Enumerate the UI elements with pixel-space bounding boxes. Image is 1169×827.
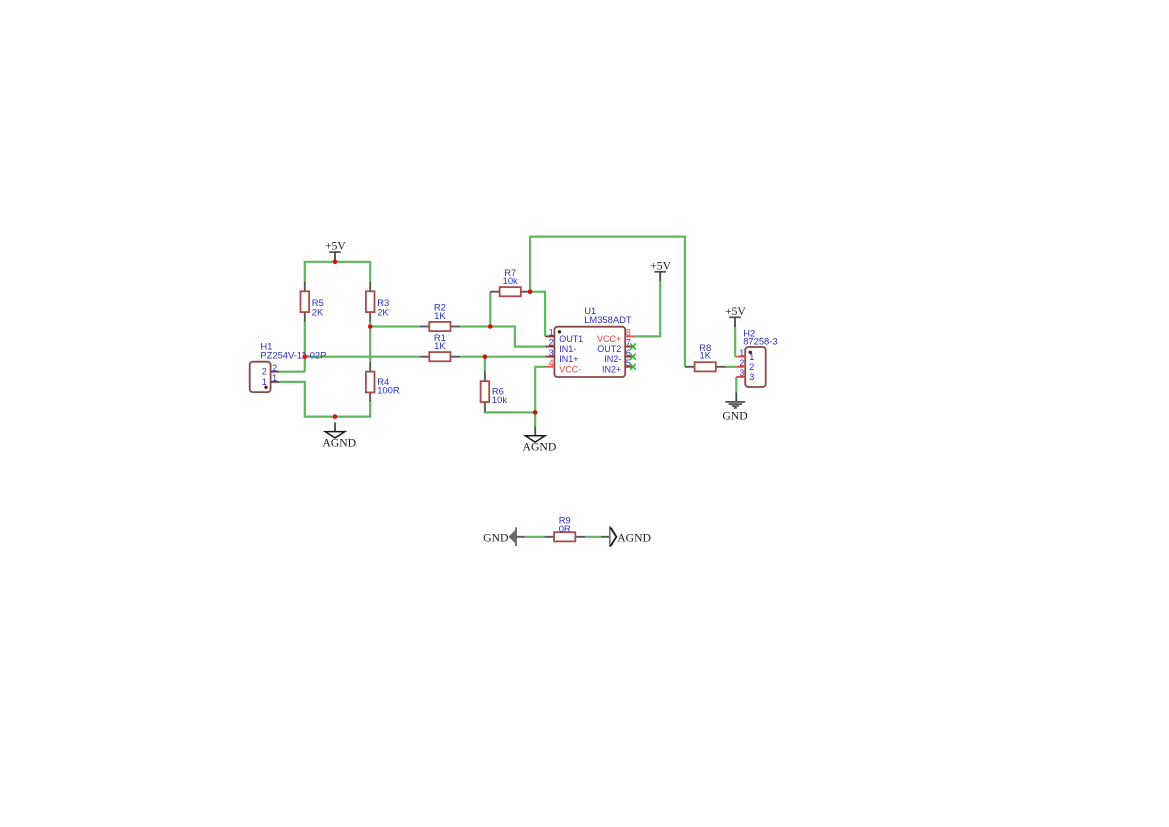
wire R1 right to U1 pin3 (460, 356, 545, 358)
resistor R9 0R (545, 515, 585, 542)
svg-text:2K: 2K (377, 307, 389, 318)
power +5V (U1 VCC+) (650, 259, 671, 281)
svg-text:IN2+: IN2+ (602, 364, 621, 374)
node R7/top wire (528, 289, 533, 294)
wire node right toward U1 pin1 (529, 291, 545, 293)
wire U1 pin8 to +5V horizontal (634, 335, 660, 337)
svg-text:2: 2 (549, 338, 554, 348)
svg-text:1K: 1K (434, 310, 446, 321)
svg-text:+5V: +5V (650, 259, 671, 272)
wire R2 right to node (460, 325, 490, 327)
wire H2 pin3 to GND (735, 377, 737, 393)
resistor R4 100R (366, 362, 400, 402)
svg-text:1: 1 (739, 348, 744, 358)
svg-text:1: 1 (549, 328, 554, 338)
wire +5V U1 vertical (659, 282, 661, 338)
wire +5V rail top-left horizontal (305, 261, 370, 263)
connector H1 PZ254V-11-02P body (250, 341, 327, 393)
svg-text:1: 1 (272, 373, 277, 383)
wire U1 pin4 horizontal (535, 366, 545, 368)
resistor R2 1K (420, 302, 460, 332)
node R1/R6/IN1+ (483, 354, 488, 359)
wire +5V rail right drop to R3 (369, 261, 371, 282)
svg-text:2: 2 (739, 358, 744, 368)
wire H1 pin2 horizontal (279, 371, 305, 373)
wire H1 pin1 horizontal (279, 381, 305, 383)
wire H1 pin1 drop (304, 381, 306, 417)
node R3/R2/R4 (368, 324, 373, 329)
wire node up to R7 left pin (489, 292, 491, 328)
wire VCC- drop (534, 366, 536, 413)
svg-text:0R: 0R (559, 523, 571, 534)
svg-text:3: 3 (549, 348, 554, 358)
ground GND (H2 pin3) earth symbol (722, 392, 747, 422)
svg-text:GND: GND (722, 410, 747, 423)
U1 pin 2 IN1- (545, 338, 576, 354)
svg-text:+5V: +5V (725, 305, 746, 318)
H2 pin 1 (736, 348, 754, 362)
node VCC-/R6/AGND (533, 410, 538, 415)
resistor R6 10k (481, 371, 508, 411)
wire corner down to pin1 row (544, 291, 546, 337)
svg-text:2: 2 (749, 362, 754, 372)
svg-text:3: 3 (739, 368, 744, 378)
svg-text:AGND: AGND (617, 531, 651, 544)
node H1 net / R1 (303, 354, 308, 359)
wire corner down to pin2 row (514, 326, 516, 347)
wire R5 bottom to H1 pin2 vertical (304, 322, 306, 372)
power +5V (H2 pin1) (725, 305, 746, 327)
wire top long horizontal (529, 236, 685, 238)
wire node to R1 left horizontal (305, 356, 420, 358)
resistor R8 1K (685, 342, 725, 372)
svg-text:1K: 1K (434, 340, 446, 351)
wire R6 bottom nub (484, 411, 486, 413)
wire R7 right node up (529, 237, 531, 293)
net port GND (bottom row) (483, 527, 524, 546)
svg-text:IN1-: IN1- (559, 344, 576, 354)
wire R6 bottom to node horizontal (485, 411, 536, 413)
wire bottom AGND horizontal (304, 416, 370, 418)
U1 pin 8 VCC+ (597, 328, 634, 344)
ground AGND (left) (322, 422, 356, 449)
svg-text:OUT1: OUT1 (559, 334, 583, 344)
svg-text:1K: 1K (699, 349, 711, 360)
U1 pin 4 VCC- (545, 358, 581, 374)
svg-text:2K: 2K (312, 307, 324, 318)
svg-text:IN1+: IN1+ (559, 354, 578, 364)
svg-text:3: 3 (749, 372, 754, 382)
node R2/R7 (488, 324, 493, 329)
wire node right toward U1 pin2 (489, 325, 515, 327)
H2 pin 3 (736, 368, 754, 382)
U1 pin 5 IN2+ no-connect (602, 358, 636, 374)
wire +5V stub to junction (334, 259, 336, 263)
svg-text:AGND: AGND (322, 436, 356, 449)
svg-text:OUT2: OUT2 (597, 344, 621, 354)
H1 pin 1 (262, 373, 280, 387)
resistor R5 2K (301, 282, 325, 322)
svg-text:1: 1 (262, 377, 267, 387)
U1 pin 3 IN1+ (545, 348, 578, 364)
H2 pin 2 (736, 358, 754, 372)
svg-text:VCC+: VCC+ (597, 334, 621, 344)
svg-text:5: 5 (626, 358, 631, 368)
svg-text:GND: GND (483, 531, 508, 544)
wire into U1 pin2 (514, 346, 545, 348)
U1 pin 6 IN2- no-connect (604, 348, 636, 364)
resistor R3 2K (366, 282, 390, 322)
wire R9 to AGND port (585, 536, 602, 538)
ground AGND (VCC- net) (523, 427, 557, 454)
node AGND left (333, 414, 338, 419)
H1 pin 2 (262, 363, 280, 377)
svg-text:87258-3: 87258-3 (743, 336, 777, 347)
svg-text:PZ254V-11-02P: PZ254V-11-02P (260, 349, 326, 360)
wire +5V rail left drop to R5 (304, 261, 306, 282)
wire R3 bottom vertical through node to R4 top (369, 322, 371, 362)
wire R4 bottom drop (369, 402, 371, 417)
svg-text:IN2-: IN2- (604, 354, 621, 364)
wire node R3 to R2 left (370, 325, 420, 327)
wire node down to R6 top (484, 357, 486, 372)
wire node down to AGND (534, 411, 536, 426)
svg-text:1: 1 (749, 352, 754, 362)
svg-text:+5V: +5V (325, 240, 346, 253)
wire R8 right to H2 pin2 (725, 366, 736, 368)
svg-text:4: 4 (549, 358, 554, 368)
svg-text:AGND: AGND (523, 441, 557, 454)
svg-text:8: 8 (626, 328, 631, 338)
svg-text:LM358ADT: LM358ADT (584, 314, 632, 325)
wire +5V to H2 pin1 (734, 327, 736, 357)
node +5V rail (333, 260, 338, 265)
wire GND port to R9 (524, 536, 545, 538)
svg-text:10k: 10k (492, 394, 507, 405)
svg-text:7: 7 (626, 338, 631, 348)
resistor R7 10k (490, 267, 530, 296)
connector H2 87258-3 body (743, 327, 777, 387)
wire long drop to R8 (684, 236, 686, 367)
U1 pin 1 OUT1 (545, 328, 583, 344)
svg-text:2: 2 (272, 363, 277, 373)
svg-text:VCC-: VCC- (559, 364, 581, 374)
power +5V (left rail) (325, 240, 346, 262)
svg-text:10k: 10k (503, 275, 518, 286)
U1 pin 7 OUT2 no-connect (597, 338, 636, 354)
svg-text:100R: 100R (377, 385, 400, 396)
net port AGND (bottom row) (601, 526, 651, 547)
svg-text:2: 2 (262, 367, 267, 377)
svg-text:6: 6 (626, 348, 631, 358)
resistor R1 1K (420, 332, 460, 362)
op-amp U1 LM358ADT body (554, 305, 631, 377)
